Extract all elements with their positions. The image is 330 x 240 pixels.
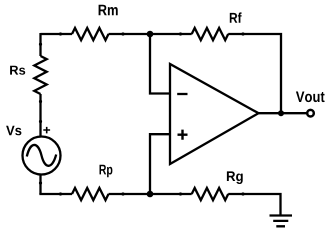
resistor R_g zigzag — [192, 188, 229, 200]
wire inverting input from top junction — [150, 34, 170, 94]
op-amp U1 triangle — [170, 64, 259, 164]
label Rs — [10, 66, 25, 75]
label Rg — [227, 171, 243, 184]
label Vout — [296, 92, 325, 103]
wire left rail top — [39, 33, 41, 56]
wire bottom right to ground drop — [228, 194, 280, 216]
anchor tick Vs top — [39, 120, 42, 123]
source V_s circle — [23, 137, 61, 175]
resistor R_m zigzag — [72, 28, 109, 40]
anchor tick Rm left — [59, 32, 62, 35]
op-amp minus input sign — [177, 93, 187, 95]
plus polarity mark at Vs — [43, 127, 50, 133]
resistor R_p zigzag — [72, 188, 109, 200]
anchor tick Rg right — [241, 192, 244, 195]
junction bottom (node B) — [147, 191, 154, 198]
wire Vs to bottom rail — [39, 175, 41, 195]
anchor tick Rs bottom — [39, 100, 42, 103]
anchor tick Rp left — [59, 192, 62, 195]
wire top right + right vertical drop — [228, 34, 281, 113]
wire top rail — [41, 33, 73, 35]
resistor R_s zigzag — [34, 56, 46, 94]
anchor tick Rs top — [39, 43, 42, 46]
junction top (node A) — [147, 31, 154, 38]
wire bottom middle — [109, 193, 192, 195]
terminal Vout open circle — [307, 110, 314, 117]
label Rf — [230, 12, 242, 22]
anchor tick Rg left — [179, 192, 182, 195]
anchor tick Vs bottom — [39, 181, 42, 184]
sine wave inside Vs — [27, 145, 56, 166]
anchor tick Rf right — [241, 32, 244, 35]
wire non-inverting input from bottom junction — [150, 134, 170, 194]
label Rp — [100, 165, 113, 178]
wire top middle — [109, 33, 192, 35]
op-amp plus input sign — [178, 130, 188, 140]
wire output — [259, 112, 307, 114]
junction output (node Vout) — [278, 110, 284, 116]
wire Rs to Vs — [39, 94, 41, 137]
anchor tick Rm right — [121, 32, 124, 35]
anchor tick Rf left — [179, 32, 182, 35]
label Vs — [6, 126, 21, 136]
ground symbol bars — [270, 216, 293, 227]
wire bottom left — [41, 193, 73, 194]
resistor R_f zigzag — [192, 28, 229, 40]
anchor tick Rp right — [121, 192, 124, 195]
label Rm — [99, 5, 118, 16]
